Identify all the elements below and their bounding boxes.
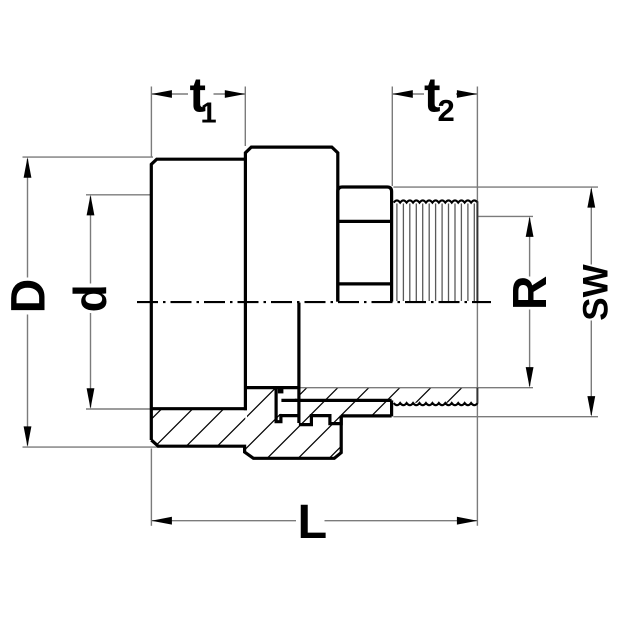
svg-text:L: L — [298, 495, 328, 549]
svg-text:1: 1 — [201, 98, 217, 130]
svg-text:d: d — [64, 284, 116, 312]
svg-text:R: R — [504, 275, 557, 310]
svg-text:SW: SW — [577, 264, 616, 320]
svg-text:2: 2 — [438, 93, 455, 128]
svg-text:D: D — [3, 279, 56, 314]
